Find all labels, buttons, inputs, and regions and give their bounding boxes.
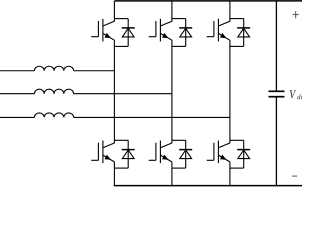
wire: diode branch vertical of D2 xyxy=(127,140,129,168)
wire: emitter tee of Q1 xyxy=(114,45,128,47)
wire: leg 1 upper vertical xyxy=(113,1,115,22)
wire: diode branch vertical of D1 xyxy=(127,19,129,47)
wire: leg 2 lower vertical xyxy=(171,162,173,186)
wire: collector tee of Q6 xyxy=(230,139,244,141)
transistor Q5 (IGBT) xyxy=(207,19,230,42)
wire: leg 2 upper vertical xyxy=(171,1,173,22)
wire: leg 3 lower vertical xyxy=(229,162,231,186)
wire: emitter tee of Q2 xyxy=(114,167,128,169)
label: Vdc voltage xyxy=(290,90,304,99)
diode D3 (antiparallel) xyxy=(179,28,192,37)
wire: leg 2 middle vertical xyxy=(171,40,173,143)
transistor Q4 (IGBT) xyxy=(149,141,172,164)
label: - polarity mark xyxy=(292,175,297,177)
inductor L1 (phase a filter) xyxy=(34,66,73,71)
capacitor C1 (DC link) xyxy=(269,91,285,96)
wire: phase a input segment xyxy=(0,70,34,72)
wire: capacitor top feed xyxy=(275,1,277,91)
diode D5 (antiparallel) xyxy=(237,28,250,37)
wire: emitter tee of Q4 xyxy=(172,167,186,169)
node: DC- bottom rail xyxy=(114,185,302,187)
transistor Q1 (IGBT) xyxy=(91,19,114,42)
wire: emitter tee of Q6 xyxy=(230,167,244,169)
transistor Q6 (IGBT) xyxy=(207,141,230,164)
wire: collector tee of Q5 xyxy=(230,18,244,20)
transistor Q3 (IGBT) xyxy=(149,19,172,42)
wire: leg 3 upper vertical xyxy=(229,1,231,22)
wire: emitter tee of Q3 xyxy=(172,45,186,47)
diode D2 (antiparallel) xyxy=(122,150,135,159)
wire: phase b input segment xyxy=(0,93,34,95)
wire: diode branch vertical of D4 xyxy=(185,140,187,168)
wire: emitter tee of Q5 xyxy=(230,45,244,47)
wire: diode branch vertical of D3 xyxy=(185,19,187,47)
wire: leg 1 lower vertical xyxy=(113,162,115,186)
inductor L2 (phase b filter) xyxy=(34,89,73,94)
wire: collector tee of Q3 xyxy=(172,18,186,20)
wire: phase b to leg midpoint xyxy=(74,93,172,95)
wire: capacitor bottom feed xyxy=(275,98,277,186)
wire: leg 3 middle vertical xyxy=(229,40,231,143)
diode D4 (antiparallel) xyxy=(179,150,192,159)
inductor L3 (phase c filter) xyxy=(34,113,73,117)
diode D6 (antiparallel) xyxy=(237,150,250,159)
wire: phase c input segment xyxy=(0,116,34,118)
wire: phase c to leg midpoint xyxy=(74,116,230,118)
diode D1 (antiparallel) xyxy=(122,28,135,37)
label: + polarity mark xyxy=(293,11,299,18)
node: DC+ top rail xyxy=(114,0,302,2)
wire: collector tee of Q1 xyxy=(114,18,128,20)
wire: phase a to leg midpoint xyxy=(74,70,115,72)
wire: leg 1 middle vertical xyxy=(113,40,115,143)
wire: diode branch vertical of D6 xyxy=(243,140,245,168)
wire: collector tee of Q4 xyxy=(172,139,186,141)
wire: collector tee of Q2 xyxy=(114,139,128,141)
transistor Q2 (IGBT) xyxy=(91,141,114,164)
wire: diode branch vertical of D5 xyxy=(243,19,245,47)
